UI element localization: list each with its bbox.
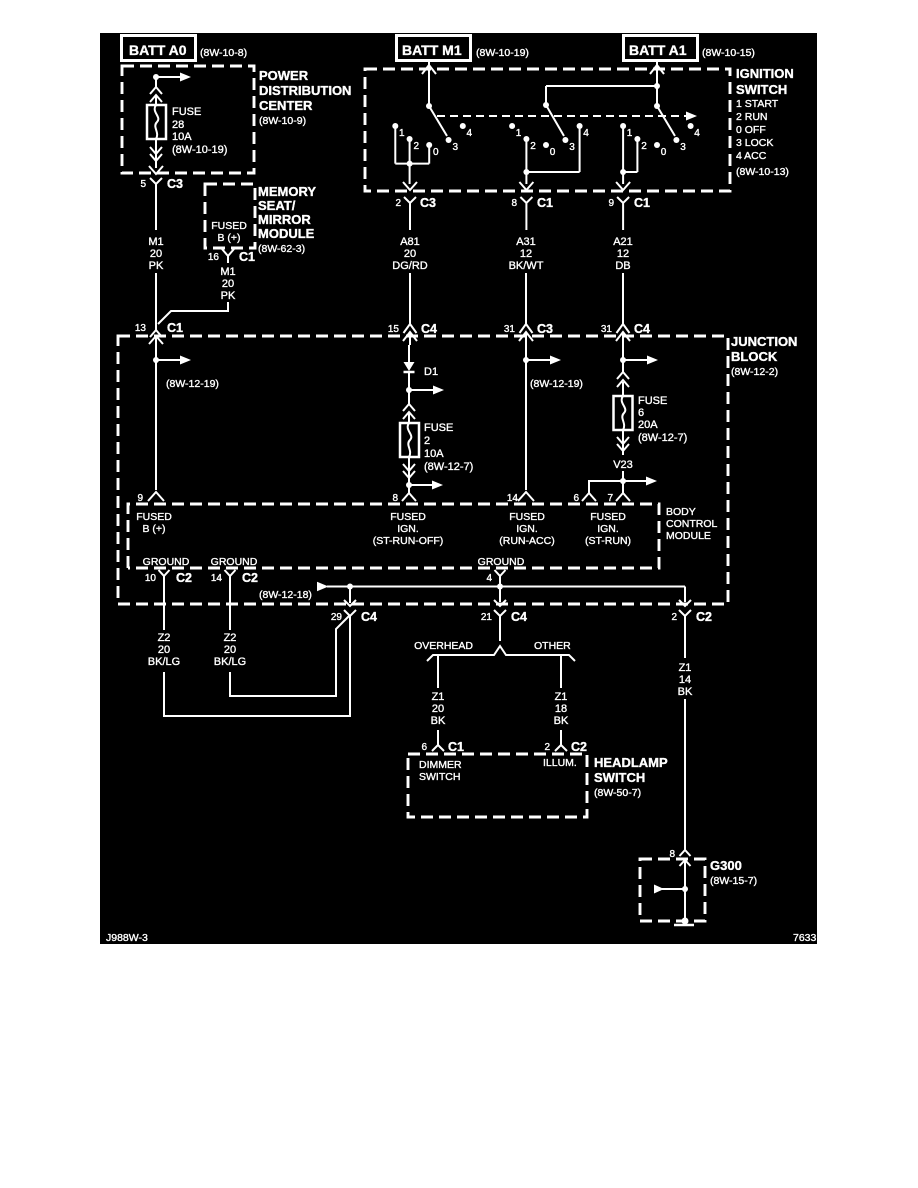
svg-text:B (+): B (+)	[217, 232, 240, 244]
svg-text:10A: 10A	[424, 448, 444, 460]
svg-text:2: 2	[424, 435, 430, 447]
connector C1 pin 16	[208, 249, 255, 264]
svg-text:BLOCK: BLOCK	[731, 349, 778, 364]
svg-text:FUSE: FUSE	[172, 106, 201, 118]
svg-text:HEADLAMP: HEADLAMP	[594, 755, 668, 770]
junction block box	[118, 334, 797, 604]
svg-text:(8W-50-7): (8W-50-7)	[594, 787, 641, 799]
svg-text:BK: BK	[431, 715, 446, 727]
svg-text:CENTER: CENTER	[259, 98, 313, 113]
ground G300 symbol	[654, 885, 688, 894]
wire arrow right JB column 4	[623, 356, 658, 365]
svg-text:G300: G300	[710, 858, 742, 873]
wire arrow right in PDC	[156, 73, 191, 82]
svg-text:2: 2	[544, 742, 550, 753]
svg-text:0: 0	[433, 147, 439, 158]
svg-text:DB: DB	[615, 260, 630, 272]
svg-text:MEMORY: MEMORY	[258, 184, 316, 199]
connector C1 pin 6	[421, 740, 464, 754]
connector C4 pin 29	[331, 600, 377, 624]
svg-text:SWITCH: SWITCH	[736, 82, 787, 97]
connector C4 pin 15	[388, 318, 437, 345]
svg-text:1 START: 1 START	[736, 98, 779, 110]
svg-text:C1: C1	[448, 740, 464, 754]
node BATT A1	[624, 36, 755, 61]
wire Z2 right upper	[229, 582, 231, 630]
svg-text:D1: D1	[424, 366, 438, 378]
fuse 2	[400, 422, 473, 473]
svg-text:JUNCTION: JUNCTION	[731, 334, 797, 349]
switch 2 jumper wire	[546, 83, 660, 104]
wire Z1-14 lower	[684, 699, 686, 850]
svg-text:2: 2	[671, 612, 677, 623]
connector C4 pin 31	[601, 318, 650, 345]
svg-text:(8W-12-19): (8W-12-19)	[530, 378, 583, 390]
connector BCM pin 8	[392, 493, 416, 504]
svg-text:6: 6	[421, 742, 427, 753]
switch 2 wiper	[543, 102, 564, 136]
wire arrow right JB column 2 lower	[409, 481, 443, 490]
wire Z1-18 lower	[560, 730, 562, 745]
svg-text:6: 6	[638, 407, 644, 419]
wire JB column 3 down	[525, 345, 527, 490]
switch 2 contacts	[509, 123, 589, 158]
wire label M1 20 PK	[148, 236, 164, 272]
connector BCM pin 7	[607, 493, 630, 504]
svg-text:M1: M1	[220, 266, 235, 278]
svg-text:(ST-RUN): (ST-RUN)	[585, 535, 631, 547]
svg-text:10A: 10A	[172, 131, 192, 143]
wire rotation dashed arrow	[437, 112, 697, 121]
wire label Z1 18 BK	[554, 691, 569, 727]
wire dot to fuse 2	[408, 390, 410, 423]
svg-text:10: 10	[145, 573, 157, 584]
svg-text:Z1: Z1	[432, 691, 445, 703]
wire A31 upper	[525, 212, 527, 230]
svg-text:18: 18	[555, 703, 567, 715]
svg-text:A81: A81	[400, 236, 420, 248]
svg-text:BK/LG: BK/LG	[214, 656, 246, 668]
svg-text:POWER: POWER	[259, 68, 309, 83]
svg-text:2 RUN: 2 RUN	[736, 111, 768, 123]
wire Z2 left upper	[163, 582, 165, 630]
svg-text:6: 6	[573, 493, 579, 504]
svg-text:FUSED: FUSED	[590, 511, 626, 523]
svg-text:8: 8	[669, 849, 675, 860]
svg-text:DIMMER: DIMMER	[419, 759, 462, 771]
connector BCM pin 14	[507, 492, 534, 504]
svg-text:7: 7	[607, 493, 613, 504]
svg-text:(ST-RUN-OFF): (ST-RUN-OFF)	[373, 535, 444, 547]
svg-text:(8W-12-18): (8W-12-18)	[259, 589, 312, 601]
svg-text:GROUND: GROUND	[211, 556, 258, 568]
svg-text:20: 20	[150, 248, 162, 260]
svg-text:FUSED: FUSED	[211, 220, 247, 232]
svg-text:BATT M1: BATT M1	[402, 42, 462, 58]
svg-text:GROUND: GROUND	[478, 556, 525, 568]
svg-text:31: 31	[504, 324, 516, 335]
connector chevrons above fuse 6	[617, 372, 629, 387]
connector G300 pin 8	[669, 849, 690, 866]
wire fuse 2 down	[408, 457, 410, 494]
svg-text:FUSE: FUSE	[424, 422, 453, 434]
svg-text:20: 20	[432, 703, 444, 715]
svg-text:(8W-10-19): (8W-10-19)	[476, 47, 529, 59]
junction dot JB column 2	[406, 387, 412, 393]
svg-text:16: 16	[208, 252, 220, 263]
connector C3 pin 5	[140, 166, 183, 192]
connector C4 pin 21	[481, 600, 527, 624]
wire ground bus arrow left	[259, 582, 329, 601]
fuse 28	[147, 105, 227, 156]
wire Z1-20 lower	[437, 730, 439, 745]
svg-text:Z1: Z1	[555, 691, 568, 703]
wire Z2 left lower	[164, 616, 350, 716]
wire label A81 20 DG/RD	[392, 236, 428, 272]
connector C1 pin 8	[511, 182, 553, 212]
power distribution center box	[122, 66, 351, 173]
memory seat/mirror module box	[205, 184, 316, 255]
junction dot JB column 3	[523, 357, 529, 363]
svg-text:4: 4	[583, 128, 589, 139]
connector C1 pin 9	[608, 182, 650, 212]
svg-text:J988W-3: J988W-3	[106, 932, 148, 944]
switch 2 bus wires	[523, 128, 579, 184]
svg-text:(8W-12-2): (8W-12-2)	[731, 366, 778, 378]
switch 3 contacts	[620, 123, 700, 158]
svg-text:12: 12	[617, 248, 629, 260]
svg-text:0 OFF: 0 OFF	[736, 124, 766, 136]
svg-text:IGNITION: IGNITION	[736, 66, 794, 81]
svg-text:1: 1	[516, 128, 522, 139]
svg-text:C4: C4	[634, 322, 650, 336]
connector C2 pin 2	[671, 600, 712, 624]
switch 1 bus wires	[395, 128, 429, 184]
node FUSED IGN ST-RUN	[585, 511, 631, 547]
headlamp switch box	[408, 754, 668, 817]
svg-text:MODULE: MODULE	[666, 530, 711, 542]
svg-text:A21: A21	[613, 236, 633, 248]
svg-text:BATT A1: BATT A1	[629, 42, 687, 58]
svg-text:SWITCH: SWITCH	[594, 770, 645, 785]
svg-text:M1: M1	[148, 236, 163, 248]
node BATT M1	[397, 36, 529, 61]
wire bus to C4-21	[499, 587, 501, 603]
wire label A21 12 DB	[613, 236, 633, 272]
svg-text:C1: C1	[239, 250, 255, 264]
svg-text:C2: C2	[242, 571, 258, 585]
switch 3 bus wires	[620, 128, 637, 184]
svg-text:FUSED: FUSED	[390, 511, 426, 523]
svg-text:IGN.: IGN.	[597, 523, 619, 535]
svg-text:9: 9	[137, 493, 143, 504]
wire arrow right V23	[623, 477, 657, 486]
svg-text:(8W-12-7): (8W-12-7)	[424, 461, 473, 473]
wire branch to pin 6	[589, 481, 623, 494]
wire JB column 1 down	[155, 360, 157, 490]
svg-text:12: 12	[520, 248, 532, 260]
connector C2 pin 2 headlamp	[544, 740, 587, 754]
ground G300 terminal	[674, 918, 694, 926]
svg-text:2: 2	[530, 141, 536, 152]
connector C3 pin 2	[395, 182, 436, 212]
connector chevrons below fuse 2	[403, 464, 415, 478]
svg-text:20: 20	[224, 644, 236, 656]
wire bus to C4-29	[349, 587, 351, 604]
node overhead/other split	[414, 640, 575, 661]
svg-text:FUSED: FUSED	[509, 511, 545, 523]
svg-text:DG/RD: DG/RD	[392, 260, 428, 272]
svg-text:C3: C3	[537, 322, 553, 336]
wire PDC vertical to fuse	[155, 77, 157, 105]
wire A21 lower	[622, 273, 624, 318]
connector chevrons below fuse 28	[150, 147, 162, 161]
node FUSED IGN ST-RUN-OFF	[373, 511, 444, 547]
svg-text:FUSE: FUSE	[638, 395, 667, 407]
svg-text:20: 20	[222, 278, 234, 290]
wire A31 lower	[525, 273, 527, 318]
svg-text:14: 14	[507, 493, 519, 504]
svg-text:4: 4	[486, 573, 492, 584]
junction dot bus C4-29	[347, 584, 353, 590]
svg-text:3: 3	[569, 142, 575, 153]
svg-text:3: 3	[453, 142, 459, 153]
svg-text:IGN.: IGN.	[516, 523, 538, 535]
svg-text:BK/WT: BK/WT	[509, 260, 544, 272]
svg-text:1: 1	[399, 128, 405, 139]
wire fuse 6 down	[622, 430, 624, 455]
wire C4-21 down to split	[499, 616, 501, 641]
svg-text:(8W-12-7): (8W-12-7)	[638, 432, 687, 444]
connector pin 4	[486, 570, 505, 586]
connector C2 pin 10	[145, 570, 192, 585]
junction dot JB column 4	[620, 357, 626, 363]
svg-text:MODULE: MODULE	[258, 226, 315, 241]
wire label Z1 20 BK	[431, 691, 446, 727]
svg-text:21: 21	[481, 612, 493, 623]
wire arrow right JB column 3	[526, 356, 583, 391]
connector chevrons above fuse 28	[150, 87, 162, 102]
svg-text:20: 20	[158, 644, 170, 656]
wire M1 upper	[155, 192, 157, 230]
svg-text:(8W-10-15): (8W-10-15)	[702, 47, 755, 59]
wire arrow right JB column 2	[409, 386, 444, 395]
svg-text:9: 9	[608, 198, 614, 209]
wire JB column 4 to fuse 6	[622, 345, 624, 396]
wire Z1-14 upper	[684, 616, 686, 658]
svg-text:C2: C2	[571, 740, 587, 754]
wire label Z2 20 BK/LG right	[214, 632, 246, 668]
svg-text:2: 2	[641, 141, 647, 152]
wire bus to C2-2	[684, 587, 686, 603]
node BATT A0	[122, 36, 248, 61]
svg-text:2: 2	[414, 141, 420, 152]
svg-text:8: 8	[511, 198, 517, 209]
wire A81 lower	[409, 273, 411, 318]
wire arrow right JB column 1	[156, 356, 219, 391]
wire M1 lower	[155, 273, 157, 322]
svg-text:Z1: Z1	[679, 662, 692, 674]
connector C2 pin 14	[211, 570, 258, 585]
svg-text:V23: V23	[613, 459, 633, 471]
wire fuse 28 to connector C3	[155, 139, 157, 168]
svg-text:GROUND: GROUND	[143, 556, 190, 568]
svg-text:OVERHEAD: OVERHEAD	[414, 640, 473, 652]
node junction dot PDC	[153, 74, 159, 80]
node FUSED B(+)	[136, 511, 172, 535]
svg-text:29: 29	[331, 612, 343, 623]
switch 1 contacts	[392, 123, 472, 158]
wire JB column 2 top	[408, 345, 410, 362]
wire Z1-18 upper	[560, 655, 562, 688]
svg-text:13: 13	[135, 323, 147, 334]
svg-text:(8W-10-9): (8W-10-9)	[259, 115, 306, 127]
switch 1 wiper	[426, 103, 447, 136]
svg-text:15: 15	[388, 324, 400, 335]
connector BCM pin 6	[573, 493, 596, 504]
junction dot V23	[620, 478, 626, 484]
svg-text:IGN.: IGN.	[397, 523, 419, 535]
svg-text:8: 8	[392, 493, 398, 504]
connector chevrons above fuse 2	[403, 404, 415, 419]
connector C3 pin 31	[504, 318, 553, 345]
svg-text:4: 4	[467, 128, 473, 139]
body control module box	[128, 504, 717, 568]
svg-text:C3: C3	[167, 177, 183, 191]
svg-text:2: 2	[395, 198, 401, 209]
svg-text:20A: 20A	[638, 419, 658, 431]
fuse 6	[614, 395, 688, 444]
svg-text:20: 20	[404, 248, 416, 260]
svg-text:PK: PK	[221, 290, 236, 302]
wire A81 upper	[409, 212, 411, 230]
svg-text:DISTRIBUTION: DISTRIBUTION	[259, 83, 351, 98]
svg-text:PK: PK	[149, 260, 164, 272]
svg-text:C4: C4	[511, 610, 527, 624]
wire label M1 20 PK memory	[220, 266, 236, 302]
svg-text:C1: C1	[537, 196, 553, 210]
G300 box	[640, 858, 757, 921]
connector BCM pin 9	[137, 492, 164, 504]
svg-text:BK: BK	[554, 715, 569, 727]
svg-text:C2: C2	[176, 571, 192, 585]
svg-text:MIRROR: MIRROR	[258, 212, 311, 227]
wire A21 upper	[622, 212, 624, 230]
wire V23 down	[622, 471, 624, 494]
svg-text:(8W-10-13): (8W-10-13)	[736, 166, 789, 178]
connector chevrons below fuse 6	[617, 437, 629, 451]
svg-text:(8W-10-19): (8W-10-19)	[172, 144, 227, 156]
svg-text:14: 14	[679, 674, 691, 686]
wire BATT M1 down	[422, 61, 436, 105]
junction dot JB column 2 lower	[406, 482, 412, 488]
svg-text:BK/LG: BK/LG	[148, 656, 180, 668]
svg-text:SWITCH: SWITCH	[419, 771, 460, 783]
svg-text:3 LOCK: 3 LOCK	[736, 137, 773, 149]
svg-text:Z2: Z2	[158, 632, 171, 644]
svg-text:C3: C3	[420, 196, 436, 210]
svg-text:OTHER: OTHER	[534, 640, 571, 652]
wire Z2 right lower	[230, 616, 349, 696]
svg-text:31: 31	[601, 324, 613, 335]
svg-text:C4: C4	[421, 322, 437, 336]
wire into G300	[684, 859, 686, 921]
svg-text:SEAT/: SEAT/	[258, 198, 296, 213]
svg-text:BODY: BODY	[666, 506, 696, 518]
svg-text:28: 28	[172, 119, 184, 131]
svg-text:(RUN-ACC): (RUN-ACC)	[499, 535, 554, 547]
ignition switch box	[365, 66, 794, 191]
svg-text:C4: C4	[361, 610, 377, 624]
svg-text:C1: C1	[634, 196, 650, 210]
diode D1	[404, 362, 439, 378]
svg-text:A31: A31	[516, 236, 536, 248]
svg-text:C1: C1	[167, 321, 183, 335]
svg-text:ILLUM.: ILLUM.	[543, 757, 577, 769]
svg-text:7633: 7633	[793, 932, 817, 944]
svg-text:FUSED: FUSED	[136, 511, 172, 523]
svg-text:(8W-15-7): (8W-15-7)	[710, 875, 757, 887]
svg-text:C2: C2	[696, 610, 712, 624]
svg-text:BATT A0: BATT A0	[129, 42, 187, 58]
switch 3 wiper	[654, 103, 675, 136]
svg-text:(8W-12-19): (8W-12-19)	[166, 378, 219, 390]
svg-text:Z2: Z2	[224, 632, 237, 644]
wire BATT A1 down	[650, 61, 664, 105]
svg-text:14: 14	[211, 573, 223, 584]
wire label Z2 20 BK/LG left	[148, 632, 180, 668]
svg-text:BK: BK	[678, 686, 693, 698]
wire memory to C1-13	[158, 302, 228, 324]
svg-text:(8W-10-8): (8W-10-8)	[200, 47, 247, 59]
svg-text:(8W-62-3): (8W-62-3)	[258, 243, 305, 255]
node FUSED IGN RUN-ACC	[499, 511, 554, 547]
wire D1 to dot	[408, 372, 410, 390]
svg-text:CONTROL: CONTROL	[666, 518, 717, 530]
svg-text:B (+): B (+)	[142, 523, 165, 535]
junction dot bus pin4	[497, 584, 503, 590]
wire Z1-20 upper	[437, 655, 439, 688]
wire ground bus	[327, 586, 685, 588]
junction dot JB column 1	[153, 357, 159, 363]
svg-text:0: 0	[550, 147, 556, 158]
svg-text:3: 3	[680, 142, 686, 153]
svg-text:4: 4	[694, 128, 700, 139]
connector C1 pin 13	[135, 321, 183, 360]
wire label Z1 14 BK	[678, 662, 693, 698]
svg-text:0: 0	[661, 147, 667, 158]
svg-text:4 ACC: 4 ACC	[736, 150, 767, 162]
wire label A31 12 BK/WT	[509, 236, 544, 272]
svg-text:5: 5	[140, 179, 146, 190]
svg-text:1: 1	[627, 128, 633, 139]
